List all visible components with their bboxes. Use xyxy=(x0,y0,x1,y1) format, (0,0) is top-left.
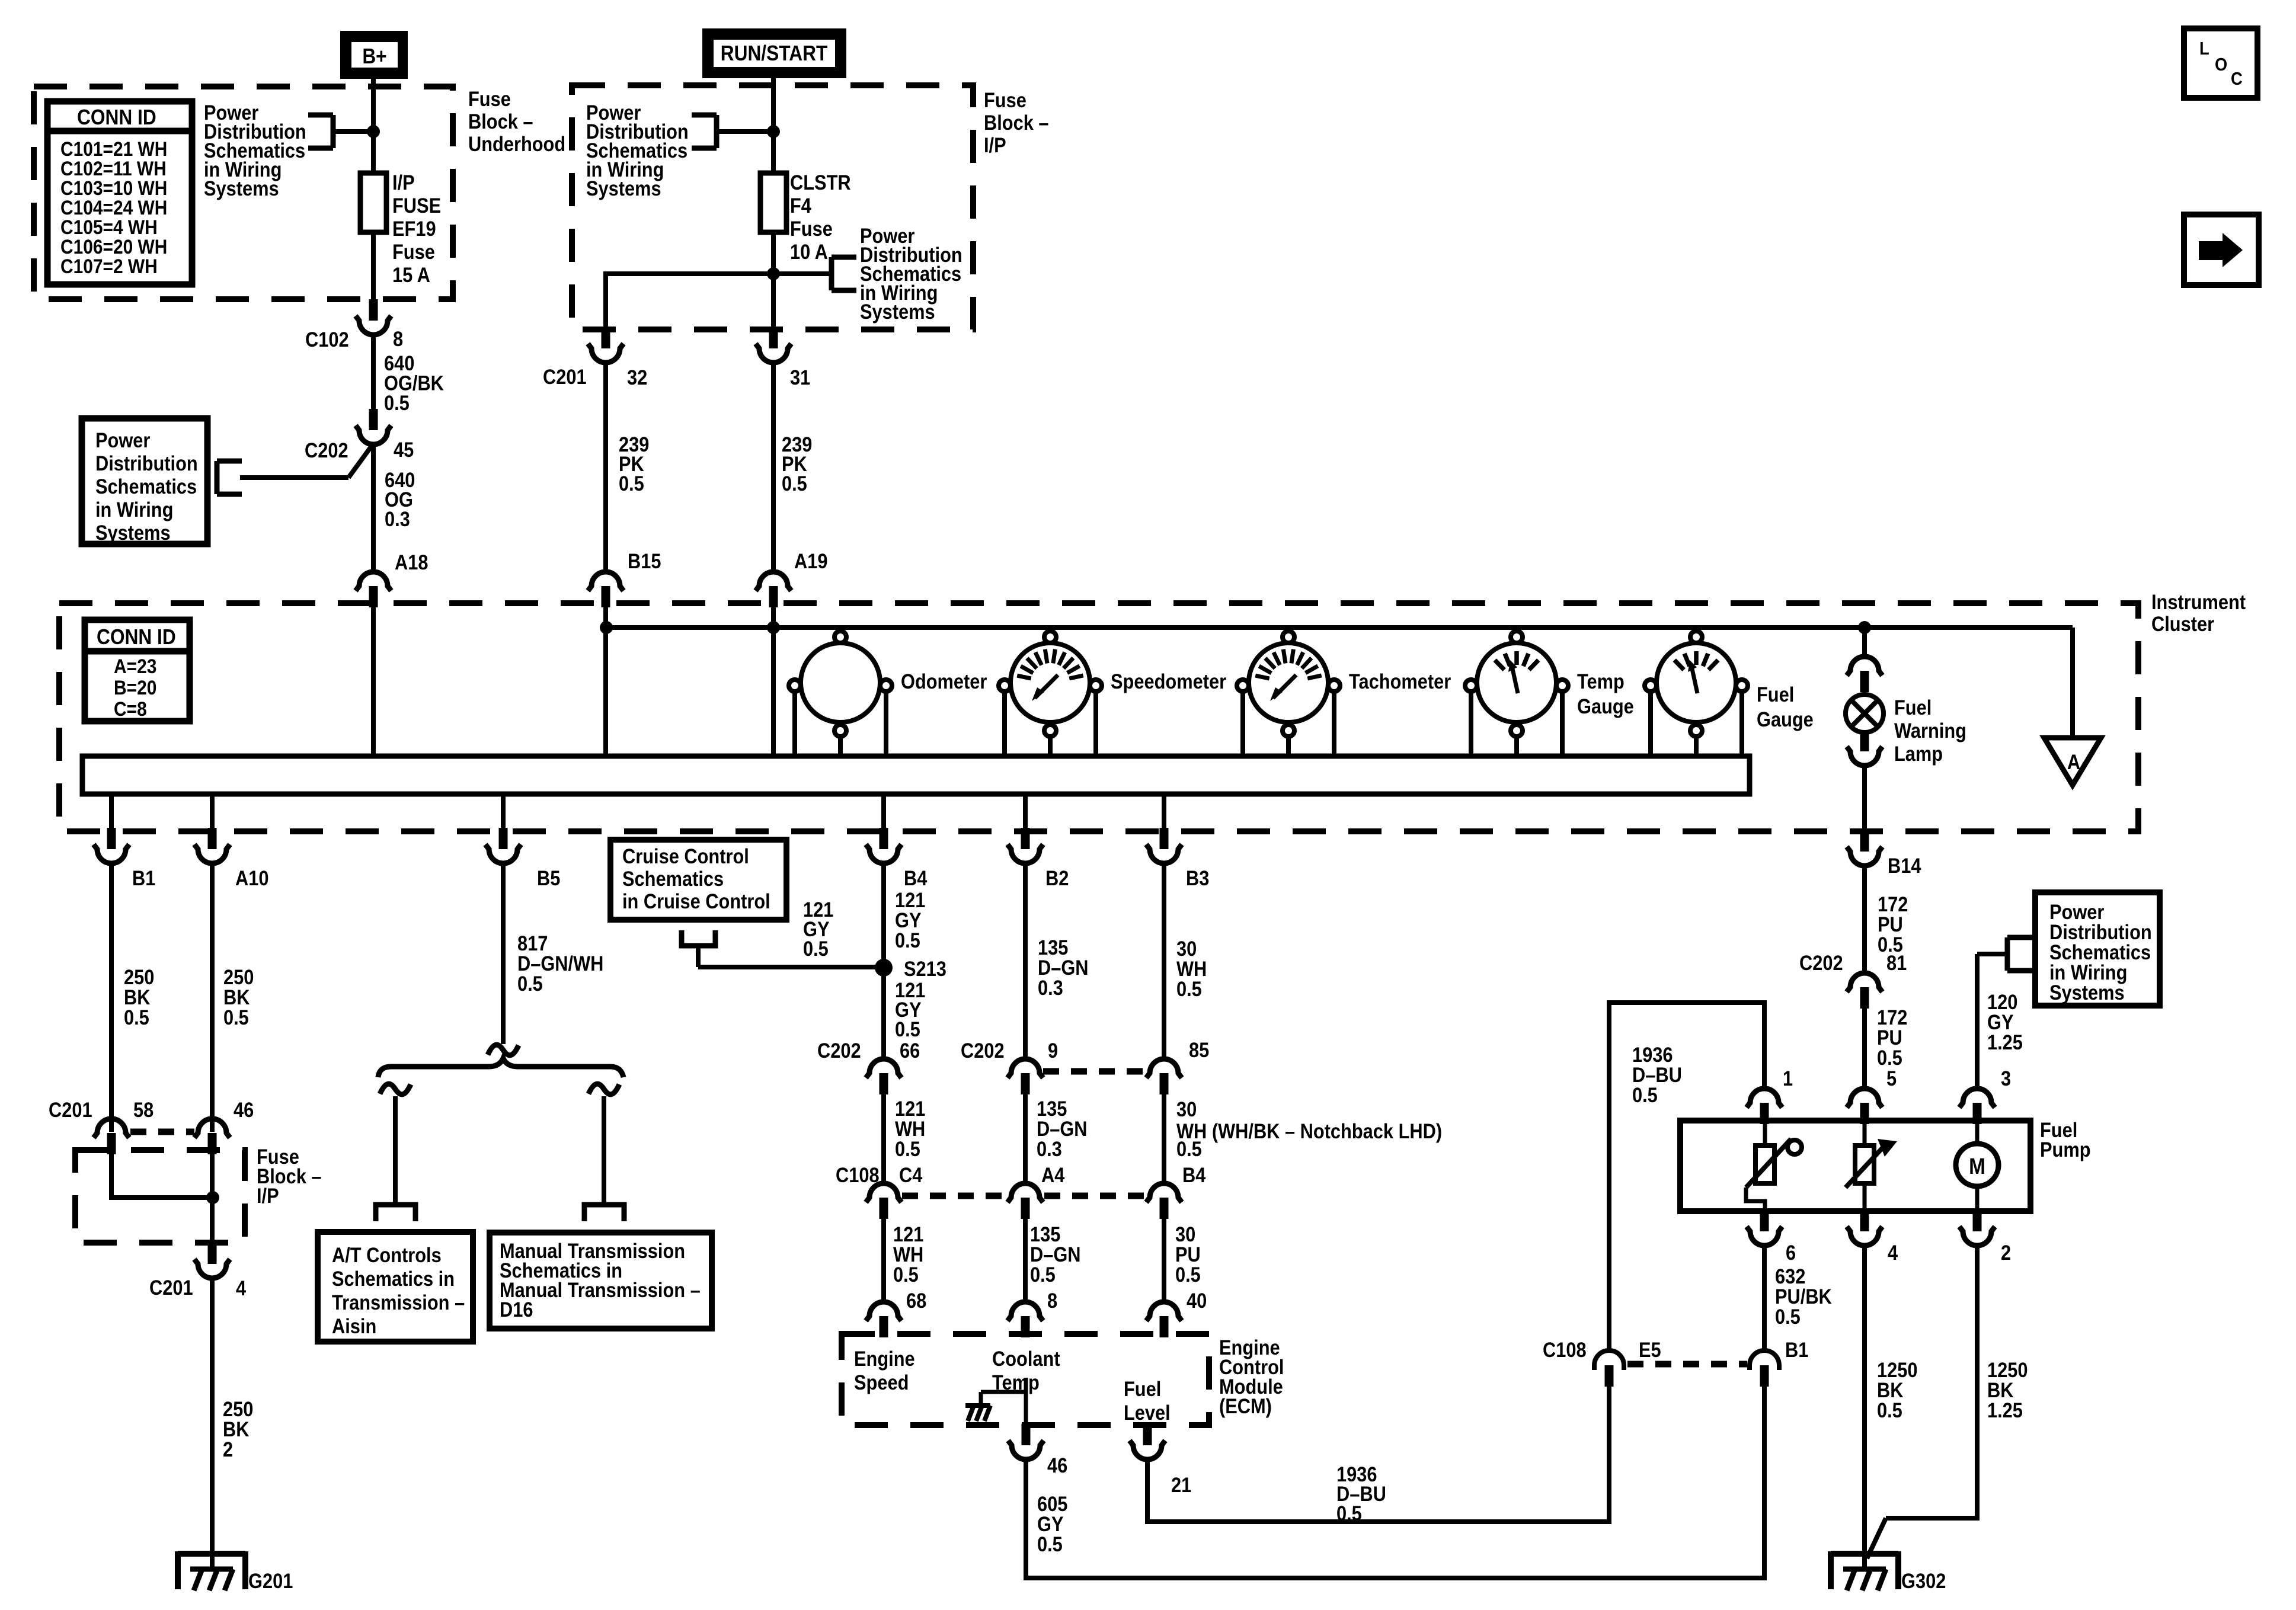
svg-text:C4: C4 xyxy=(899,1163,923,1186)
label B2 xyxy=(1045,866,1069,889)
svg-text:Temp: Temp xyxy=(1577,670,1625,693)
svg-text:0.5: 0.5 xyxy=(803,937,829,960)
svg-text:Block –: Block – xyxy=(984,111,1049,134)
svg-text:0.5: 0.5 xyxy=(1176,977,1202,1000)
svg-text:C107=2 WH: C107=2 WH xyxy=(60,255,158,277)
connector C202 pin 45 xyxy=(356,409,391,444)
bracket from power distribution box xyxy=(217,461,348,494)
connector fuel pump pin 4 xyxy=(1847,1210,1882,1246)
wire 640 OG xyxy=(371,443,376,572)
coolant temp internal wire xyxy=(981,1378,1026,1423)
LOC reference box xyxy=(2184,28,2257,98)
svg-text:8: 8 xyxy=(393,327,403,350)
junction dot A19 feed xyxy=(767,621,780,634)
connector C202 pin 66 xyxy=(866,1059,901,1094)
connector fuel pump pin 6 xyxy=(1747,1210,1782,1246)
lamp lower socket connector xyxy=(1847,730,1882,766)
svg-text:0.5: 0.5 xyxy=(223,1006,249,1029)
svg-text:66: 66 xyxy=(900,1039,920,1062)
label pin 1 xyxy=(1783,1067,1793,1090)
label B4 xyxy=(904,866,928,889)
junction dot RUN/START upper xyxy=(767,125,780,138)
gauge Fuel Gauge wires to bus xyxy=(1651,692,1742,756)
svg-text:Systems: Systems xyxy=(2049,981,2125,1004)
svg-text:2: 2 xyxy=(2001,1241,2011,1264)
wire 172 PU lower xyxy=(1862,1009,1867,1089)
label Power Distribution Schematics in Wiring Systems (underhood) xyxy=(204,101,306,200)
svg-text:85: 85 xyxy=(1189,1038,1209,1061)
label pin 46 xyxy=(234,1098,254,1121)
svg-text:C201: C201 xyxy=(49,1098,92,1121)
svg-text:Schematics in: Schematics in xyxy=(332,1267,455,1290)
svg-text:Instrument: Instrument xyxy=(2151,590,2246,613)
label pin 85 xyxy=(1189,1038,1209,1061)
label Coolant Temp xyxy=(992,1347,1060,1394)
gauge Temp Gauge xyxy=(1465,631,1568,737)
connector B3 at cluster edge xyxy=(1146,828,1182,863)
svg-text:21: 21 xyxy=(1171,1473,1191,1496)
twisted pair squiggle xyxy=(488,1045,519,1055)
svg-text:2: 2 xyxy=(223,1438,233,1461)
A/T Controls reference box xyxy=(318,1232,473,1342)
svg-text:C201: C201 xyxy=(543,365,587,388)
svg-text:C108: C108 xyxy=(836,1163,880,1186)
svg-text:81: 81 xyxy=(1886,951,1907,974)
svg-text:0.3: 0.3 xyxy=(385,507,410,530)
label pin B1 (C108) xyxy=(1785,1338,1808,1361)
svg-text:Warning: Warning xyxy=(1894,719,1966,742)
svg-text:A: A xyxy=(2067,750,2080,773)
wire B5 from bus bar xyxy=(501,794,506,829)
svg-text:B+: B+ xyxy=(362,44,386,68)
label Instrument Cluster xyxy=(2151,590,2246,635)
svg-text:6: 6 xyxy=(1786,1241,1796,1264)
label A19 xyxy=(794,549,827,572)
label pin E5 xyxy=(1639,1338,1661,1361)
fuel pump motor xyxy=(1956,1124,1998,1212)
label 120 GY 1.25 xyxy=(1987,990,2023,1054)
label CLSTR F4 Fuse 10 A xyxy=(790,171,851,263)
fuse EF19 xyxy=(360,173,386,232)
wire 120 GY xyxy=(1975,954,1980,1089)
label 250 BK 0.5 (B1) xyxy=(124,965,154,1029)
label C202 (9 row) xyxy=(961,1039,1005,1062)
svg-text:G302: G302 xyxy=(1901,1569,1946,1592)
svg-text:A=23: A=23 xyxy=(114,655,156,677)
connector C202 pin 85 xyxy=(1146,1059,1182,1094)
label B15 xyxy=(628,549,661,572)
svg-text:F4: F4 xyxy=(790,194,812,217)
label 135 D-GN 0.5 (lower) xyxy=(1030,1222,1081,1286)
svg-text:G201: G201 xyxy=(248,1569,293,1592)
svg-text:46: 46 xyxy=(1047,1454,1067,1477)
label C202 xyxy=(305,438,348,462)
svg-text:Fuel: Fuel xyxy=(1894,696,1932,719)
svg-text:A10: A10 xyxy=(235,866,268,889)
connector C201 pin 31 xyxy=(756,327,791,363)
connector C108 pin B4 xyxy=(1146,1183,1182,1219)
power distribution reference box (fuel pump) xyxy=(2035,892,2160,1006)
svg-text:Speedometer: Speedometer xyxy=(1111,670,1226,693)
label pin 40 xyxy=(1187,1289,1207,1312)
wire 172 PU upper xyxy=(1862,865,1867,974)
bracket to RUN/START wire xyxy=(692,115,773,148)
connector B5 at cluster edge xyxy=(485,828,521,863)
svg-text:0.5: 0.5 xyxy=(1877,1046,1902,1069)
svg-text:C108: C108 xyxy=(1543,1338,1587,1361)
label pin 5 xyxy=(1886,1067,1897,1090)
junction dot in fuse block xyxy=(206,1191,219,1204)
label Fuse Block - Underhood xyxy=(468,87,565,155)
connector C201 pin 58 xyxy=(94,1119,129,1154)
label 817 D-GN/WH 0.5 xyxy=(517,932,603,995)
connector ECM pin 8 xyxy=(1008,1302,1043,1337)
Manual Transmission reference box xyxy=(490,1233,712,1329)
svg-text:0.5: 0.5 xyxy=(1176,1137,1202,1160)
label B14 xyxy=(1888,854,1921,877)
label 121 WH 0.5 (lower) xyxy=(893,1222,923,1286)
svg-text:8: 8 xyxy=(1047,1289,1057,1312)
connector fuel pump pin 5 xyxy=(1847,1089,1882,1124)
svg-text:10 A: 10 A xyxy=(790,240,828,263)
label 605 GY 0.5 xyxy=(1037,1492,1067,1555)
svg-text:in Wiring: in Wiring xyxy=(95,498,173,521)
label C202 (66 row) xyxy=(817,1039,861,1062)
svg-text:B=20: B=20 xyxy=(114,676,156,699)
label 121 WH 0.5 (upper) xyxy=(895,1097,925,1160)
wire 1936 D-BU lower xyxy=(1147,1387,1609,1522)
label 239 PK 0.5 (right) xyxy=(782,433,812,495)
svg-text:Power: Power xyxy=(95,428,151,452)
wire 58 inside fuse block xyxy=(111,1154,213,1198)
svg-text:1.25: 1.25 xyxy=(1987,1030,2023,1054)
label Power Distribution Schematics in Wiring Systems (I/P right) xyxy=(860,224,962,323)
svg-text:C202: C202 xyxy=(305,438,348,462)
wire fuse EF19 to C102 xyxy=(371,232,376,300)
svg-text:0.5: 0.5 xyxy=(384,391,410,414)
connector A19 into cluster xyxy=(756,572,791,607)
svg-text:Pump: Pump xyxy=(2040,1138,2091,1161)
wire 1250 BK 0.5 xyxy=(1862,1244,1867,1569)
label I/P FUSE EF19 Fuse 15 A xyxy=(392,171,441,286)
label 30 WH (WH/BK - Notchback LHD) 0.5 xyxy=(1176,1097,1442,1160)
dashed link C201 58-46 xyxy=(130,1129,194,1135)
pressure sender resistor xyxy=(1846,1124,1897,1212)
splice S213 xyxy=(875,959,893,977)
svg-text:C=8: C=8 xyxy=(114,697,147,720)
wire 1250 BK 1.25 xyxy=(1867,1244,1977,1558)
svg-text:Systems: Systems xyxy=(204,177,279,200)
label 172 PU 0.5 (lower) xyxy=(1877,1006,1907,1069)
svg-text:Block –: Block – xyxy=(468,110,533,133)
wire RUN/START down xyxy=(771,78,776,173)
wire 250 BK 2 to ground xyxy=(210,1277,215,1571)
svg-text:FUSE: FUSE xyxy=(392,194,441,217)
svg-text:Aisin: Aisin xyxy=(332,1314,376,1337)
svg-text:4: 4 xyxy=(1888,1241,1898,1264)
svg-text:0.5: 0.5 xyxy=(895,1017,920,1041)
bracket from power distribution (fuel pump) xyxy=(1977,937,2032,971)
connector C108 pin A4 xyxy=(1008,1183,1043,1219)
svg-text:Odometer: Odometer xyxy=(901,670,987,693)
wire 239 PK right xyxy=(771,361,776,572)
label C102 xyxy=(305,328,349,351)
svg-text:C201: C201 xyxy=(149,1276,193,1299)
label 121 GY 0.5 (upper) xyxy=(895,888,925,952)
svg-text:Systems: Systems xyxy=(95,521,171,544)
wire 632 PU/BK xyxy=(1762,1244,1767,1352)
label pin 31 xyxy=(790,366,810,389)
wire B+ down into fuse block xyxy=(371,79,376,173)
svg-text:B15: B15 xyxy=(628,549,661,572)
label pin 46 xyxy=(1047,1454,1067,1477)
wire 250 BK (A10) xyxy=(210,862,215,1132)
svg-text:68: 68 xyxy=(906,1289,926,1312)
label B1 xyxy=(132,866,155,889)
label Fuel Warning Lamp xyxy=(1894,696,1966,765)
svg-text:Fuse: Fuse xyxy=(468,87,511,110)
wire 250 BK (B1) xyxy=(109,862,114,1132)
fuse block underhood dashed box xyxy=(34,87,453,299)
svg-text:0.5: 0.5 xyxy=(1175,1263,1201,1286)
wire 121 GY upper xyxy=(881,862,886,968)
destination bracket (A/T) xyxy=(376,1205,415,1221)
label C108 (E5 row) xyxy=(1543,1338,1587,1361)
label C108 xyxy=(836,1163,880,1186)
label A18 xyxy=(395,550,428,574)
label 239 PK 0.5 (left) xyxy=(619,433,649,495)
internal ground (coolant temp) xyxy=(965,1406,990,1421)
junction dot RUN/START lower xyxy=(767,267,780,280)
label C201 (58/46 row) xyxy=(49,1098,92,1121)
wire lamp to cluster edge xyxy=(1862,764,1867,831)
label Speedometer xyxy=(1111,670,1226,693)
label pin 4 xyxy=(236,1276,247,1299)
wire B4 from bus bar xyxy=(881,794,886,829)
label pin 2 xyxy=(2001,1241,2011,1264)
connector B2 at cluster edge xyxy=(1008,828,1043,863)
gauge Tachometer wires to bus xyxy=(1243,692,1334,756)
label Power Distribution Schematics in Wiring Systems (I/P left) xyxy=(586,101,689,200)
label pin 66 xyxy=(900,1039,920,1062)
wire 135 D-GN lower xyxy=(1023,1219,1028,1301)
svg-text:0.5: 0.5 xyxy=(782,472,807,495)
svg-text:CONN ID: CONN ID xyxy=(77,105,156,129)
svg-text:B3: B3 xyxy=(1186,866,1209,889)
CONN ID table (fuse block underhood) xyxy=(47,101,192,284)
label 30 PU 0.5 xyxy=(1175,1222,1201,1286)
svg-text:in Cruise Control: in Cruise Control xyxy=(622,889,770,913)
svg-text:0.3: 0.3 xyxy=(1037,1137,1062,1160)
svg-text:3: 3 xyxy=(2001,1067,2011,1090)
label Engine Speed xyxy=(854,1347,915,1394)
power feed label box RUN/START xyxy=(702,28,846,78)
label pin B4 (C108) xyxy=(1182,1163,1206,1186)
svg-text:WH (WH/BK – Notchback LHD): WH (WH/BK – Notchback LHD) xyxy=(1176,1119,1442,1142)
svg-text:0.5: 0.5 xyxy=(1877,1398,1902,1422)
label Fuse Block - I/P (bottom) xyxy=(257,1145,322,1207)
label pin 8 xyxy=(1047,1289,1057,1312)
label 135 D-GN 0.3 (upper) xyxy=(1038,936,1089,999)
label 121 GY 0.5 (lower) xyxy=(895,978,925,1041)
svg-text:0.5: 0.5 xyxy=(1030,1263,1056,1286)
label Odometer xyxy=(901,670,987,693)
gauge Tachometer xyxy=(1237,631,1340,737)
connector fuel pump pin 3 xyxy=(1959,1089,1995,1124)
connector B4 at cluster edge xyxy=(866,828,901,863)
svg-text:0.5: 0.5 xyxy=(893,1263,919,1286)
svg-text:CONN ID: CONN ID xyxy=(97,625,176,649)
gauge Odometer xyxy=(789,631,892,737)
svg-text:Systems: Systems xyxy=(586,177,661,200)
label 121 GY 0.5 (cruise tap) xyxy=(803,898,833,960)
fuel warning lamp xyxy=(1846,694,1884,732)
label Fuse Block - I/P (top) xyxy=(984,88,1049,156)
wire 135 D-GN middle xyxy=(1023,1094,1028,1182)
svg-text:Level: Level xyxy=(1124,1401,1171,1424)
connector A10 at cluster edge xyxy=(194,828,230,863)
label pin 9 xyxy=(1048,1039,1058,1062)
svg-text:0.5: 0.5 xyxy=(124,1006,149,1029)
svg-text:D16: D16 xyxy=(500,1298,533,1321)
left branch squiggle xyxy=(380,1084,411,1094)
wire A10 from bus bar xyxy=(210,794,215,829)
wire 30 PU lower xyxy=(1162,1219,1166,1301)
svg-text:Gauge: Gauge xyxy=(1577,694,1634,718)
svg-text:Fuse: Fuse xyxy=(984,88,1027,111)
svg-text:B5: B5 xyxy=(537,866,560,889)
junction dot B15 feed xyxy=(600,621,613,634)
svg-text:Fuel: Fuel xyxy=(1124,1377,1161,1400)
svg-text:C202: C202 xyxy=(1799,951,1843,974)
label pin 8 xyxy=(393,327,403,350)
connector C102 xyxy=(356,299,391,335)
svg-text:A/T Controls: A/T Controls xyxy=(332,1243,442,1266)
wire fuse F4 down xyxy=(771,232,776,328)
label 632 PU/BK 0.5 xyxy=(1775,1265,1832,1328)
connector C108 pin C4 xyxy=(866,1183,901,1219)
diagonal tap wire to C202 xyxy=(348,447,371,478)
connector B1 at cluster edge xyxy=(94,828,129,863)
svg-text:C202: C202 xyxy=(817,1039,861,1062)
label Engine Control Module (ECM) xyxy=(1219,1336,1284,1417)
lamp upper socket connector xyxy=(1847,657,1882,692)
svg-text:Transmission –: Transmission – xyxy=(332,1291,465,1314)
wire 121 WH upper xyxy=(881,1094,886,1182)
label pin 6 xyxy=(1786,1241,1796,1264)
svg-text:A4: A4 xyxy=(1041,1163,1065,1186)
svg-text:0.3: 0.3 xyxy=(1038,976,1063,999)
label B3 xyxy=(1186,866,1209,889)
label pin 21 xyxy=(1171,1473,1191,1496)
wire B1 from bus bar xyxy=(109,794,114,829)
svg-text:Schematics: Schematics xyxy=(95,475,197,498)
svg-text:L: L xyxy=(2199,39,2209,59)
svg-text:E5: E5 xyxy=(1639,1338,1661,1361)
label Temp Gauge xyxy=(1577,670,1634,718)
CONN ID table (cluster) xyxy=(85,620,190,721)
label 1250 BK 0.5 xyxy=(1877,1358,1917,1422)
label pin 58 xyxy=(133,1098,154,1121)
svg-text:Underhood: Underhood xyxy=(468,132,565,155)
gauge Fuel Gauge xyxy=(1645,631,1748,737)
svg-text:32: 32 xyxy=(627,366,647,389)
gauge Odometer wires to bus xyxy=(795,692,886,756)
connector C201 pin 4 xyxy=(194,1243,230,1278)
svg-text:C202: C202 xyxy=(961,1039,1005,1062)
svg-text:B14: B14 xyxy=(1888,854,1921,877)
svg-text:Engine: Engine xyxy=(854,1347,915,1370)
wire 239 PK left xyxy=(603,361,608,572)
wire 605 GY xyxy=(1026,1387,1764,1578)
svg-text:5: 5 xyxy=(1886,1067,1897,1090)
label 640 OG/BK 0.5 xyxy=(384,351,444,414)
arrow reference box xyxy=(2184,215,2259,285)
fuel pump box xyxy=(1680,1121,2030,1211)
gauge Temp Gauge wires to bus xyxy=(1471,692,1562,756)
bracket to B+ wire xyxy=(308,115,373,148)
svg-text:Schematics: Schematics xyxy=(622,867,724,890)
svg-text:0.5: 0.5 xyxy=(619,472,644,495)
svg-text:EF19: EF19 xyxy=(392,217,436,240)
label 250 BK 0.5 (A10) xyxy=(223,965,254,1029)
cruise tap wire xyxy=(698,965,884,969)
svg-text:15 A: 15 A xyxy=(392,263,430,286)
svg-text:4: 4 xyxy=(236,1276,247,1299)
connector C201 pin 32 xyxy=(588,327,623,363)
wire 1936 D-BU upper xyxy=(1609,1003,1764,1350)
svg-text:Fuse: Fuse xyxy=(392,240,435,263)
svg-text:30: 30 xyxy=(1176,1097,1197,1121)
svg-text:RUN/START: RUN/START xyxy=(721,41,828,65)
connector C202 pin 81 xyxy=(1847,973,1882,1009)
svg-text:I/P: I/P xyxy=(257,1184,279,1207)
label 30 WH 0.5 (upper) xyxy=(1176,937,1207,1000)
wire 135 D-GN upper xyxy=(1023,862,1028,1058)
label C202 (81 row) xyxy=(1799,951,1843,974)
svg-text:B1: B1 xyxy=(132,866,155,889)
svg-text:0.5: 0.5 xyxy=(1336,1502,1362,1525)
svg-text:Distribution: Distribution xyxy=(95,452,198,475)
svg-text:1.25: 1.25 xyxy=(1987,1398,2023,1422)
svg-text:45: 45 xyxy=(394,438,414,461)
svg-text:0.5: 0.5 xyxy=(895,929,920,952)
label pin 3 xyxy=(2001,1067,2011,1090)
svg-text:M: M xyxy=(1969,1154,1985,1179)
connector B15 into cluster xyxy=(588,572,623,607)
right branch squiggle xyxy=(589,1084,619,1094)
wire A18 to bus bar xyxy=(371,607,376,756)
wire right branch xyxy=(602,1096,606,1203)
Cruise Control reference box xyxy=(610,840,786,920)
svg-text:B1: B1 xyxy=(1785,1338,1808,1361)
svg-text:O: O xyxy=(2215,55,2227,75)
svg-text:A19: A19 xyxy=(794,549,827,572)
label 1936 D-BU 0.5 (lower) xyxy=(1336,1462,1386,1525)
wire 121 WH lower xyxy=(881,1219,886,1301)
label pin 68 xyxy=(906,1289,926,1312)
svg-text:Speed: Speed xyxy=(854,1371,909,1394)
wire 640 OG/BK xyxy=(371,334,376,410)
label 250 BK 2 xyxy=(223,1397,253,1461)
label 135 D-GN 0.3 (middle) xyxy=(1037,1097,1088,1160)
svg-text:(ECM): (ECM) xyxy=(1219,1394,1272,1417)
connector ECM pin 21 xyxy=(1130,1424,1165,1459)
fuse CLSTR F4 xyxy=(760,173,786,232)
dashed link C108 C4-A4 xyxy=(902,1193,1008,1199)
label C201 (32/31 row) xyxy=(543,365,587,388)
fuel level sender resistor xyxy=(1746,1124,1802,1212)
